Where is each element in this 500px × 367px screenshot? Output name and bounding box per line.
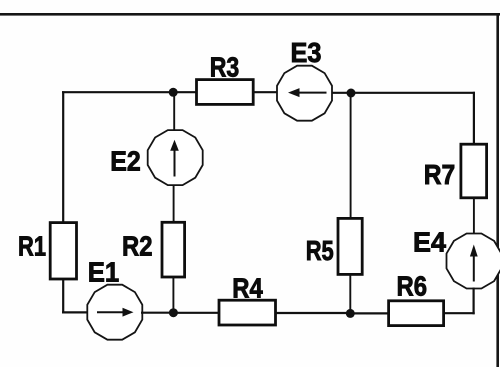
svg-text:E4: E4 bbox=[413, 227, 446, 258]
wire bottom-right horizontal bbox=[443, 312, 475, 314]
svg-text:R4: R4 bbox=[232, 273, 263, 304]
EMF source E4 bbox=[413, 227, 500, 289]
wire R5 to node D bbox=[349, 274, 351, 313]
node C junction dot top-right bbox=[347, 89, 356, 98]
border frame right bbox=[496, 13, 499, 367]
wire E3 to node C bbox=[332, 92, 356, 94]
svg-text:R2: R2 bbox=[122, 231, 153, 262]
wire E4 to bottom-right corner bbox=[473, 288, 475, 315]
wire node C to R5 bbox=[350, 93, 352, 219]
resistor R5 bbox=[306, 218, 363, 274]
svg-text:R6: R6 bbox=[397, 271, 428, 302]
wire node C to top-right corner bbox=[351, 92, 475, 94]
wire left vertical upper bbox=[62, 91, 64, 223]
wire top-left horizontal bbox=[62, 91, 197, 93]
svg-text:R5: R5 bbox=[306, 235, 334, 266]
wire R3 to E3 bbox=[253, 91, 278, 93]
svg-text:E2: E2 bbox=[110, 146, 141, 177]
wire node D to R4 bbox=[276, 312, 351, 314]
svg-text:R7: R7 bbox=[424, 159, 456, 190]
wire left vertical lower bbox=[62, 279, 64, 314]
resistor R4 bbox=[219, 273, 276, 326]
svg-text:R1: R1 bbox=[18, 231, 46, 262]
wire R7 to E4 bbox=[473, 198, 475, 235]
wire right vertical to R7 bbox=[473, 92, 475, 145]
node A junction dot bottom-left bbox=[169, 308, 178, 317]
resistor R1 bbox=[18, 223, 77, 279]
resistor R7 bbox=[424, 144, 487, 198]
border frame top bbox=[0, 13, 500, 16]
node D junction dot bottom-right bbox=[346, 309, 355, 318]
svg-text:R3: R3 bbox=[210, 52, 240, 83]
wire node B to E2 bbox=[173, 92, 175, 134]
EMF source E3 bbox=[277, 37, 332, 121]
svg-text:E3: E3 bbox=[291, 37, 322, 68]
wire R4 to node A bbox=[173, 312, 219, 314]
EMF source E1 bbox=[87, 257, 142, 340]
node B junction dot top-left bbox=[169, 88, 178, 97]
wire bottom-left horizontal bbox=[62, 311, 88, 313]
resistor R2 bbox=[122, 222, 185, 277]
resistor R6 bbox=[389, 271, 444, 326]
wire E1 to node A bbox=[141, 312, 175, 314]
EMF source E2 bbox=[110, 130, 202, 185]
wire E2 to R2 bbox=[173, 185, 175, 224]
svg-text:E1: E1 bbox=[88, 257, 120, 288]
wire R2 to node A bbox=[172, 277, 174, 313]
resistor R3 bbox=[197, 52, 254, 105]
wire R6 to node D bbox=[348, 312, 389, 314]
